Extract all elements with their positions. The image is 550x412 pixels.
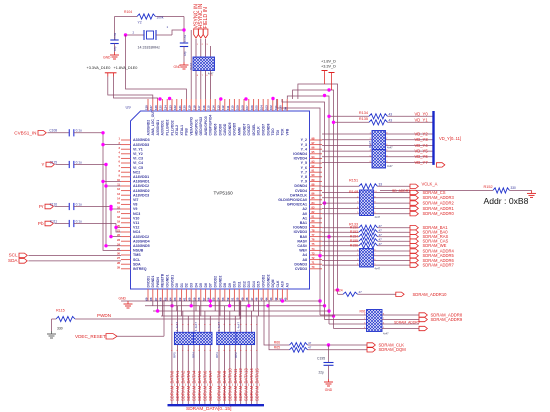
svg-text:A33GND2: A33GND2 <box>146 120 150 136</box>
svg-text:SCL: SCL <box>9 253 18 258</box>
svg-text:22p: 22p <box>319 371 325 375</box>
wire SCL to IC <box>28 254 121 256</box>
svg-text:R151: R151 <box>349 179 358 183</box>
svg-text:SDRAM_DATA9: SDRAM_DATA9 <box>222 370 227 401</box>
connector flag SDRAM_ADDR9 <box>419 317 427 321</box>
svg-text:PLLVDD2: PLLVDD2 <box>170 120 174 135</box>
ground GND under IC <box>127 301 129 304</box>
svg-text:123: 123 <box>168 105 172 110</box>
svg-text:SDRAM_DATA4: SDRAM_DATA4 <box>192 370 197 401</box>
svg-text:SDA: SDA <box>8 258 18 263</box>
svg-text:VD_Y1: VD_Y1 <box>415 117 429 122</box>
svg-text:D10: D10 <box>233 281 237 287</box>
svg-text:113: 113 <box>216 105 220 110</box>
svg-text:U9: U9 <box>126 105 132 110</box>
svg-text:CVBP/GPIO4: CVBP/GPIO4 <box>209 115 213 136</box>
connector flag HSYNC IN <box>199 29 204 38</box>
svg-text:R149: R149 <box>349 190 358 194</box>
wire flags to resistor network R164 <box>195 39 197 57</box>
svg-text:CVDD7: CVDD7 <box>247 124 251 136</box>
svg-text:AVID/GPIO3: AVID/GPIO3 <box>204 116 208 135</box>
svg-text:A18VDC3: A18VDC3 <box>133 193 149 197</box>
svg-text:I2CSEL: I2CSEL <box>252 124 256 136</box>
node crystal right junction <box>182 28 185 31</box>
svg-text:SDRAM_DATA8: SDRAM_DATA8 <box>217 370 222 401</box>
junction dots on right bundle <box>323 94 326 97</box>
svg-text:C169: C169 <box>113 32 117 40</box>
svg-text:109: 109 <box>236 105 240 110</box>
svg-text:V12: V12 <box>133 226 139 230</box>
wires R91 to flags <box>382 314 419 316</box>
junction dots top pins <box>158 97 161 100</box>
svg-text:SDRAM_DATA14: SDRAM_DATA14 <box>249 368 254 401</box>
svg-text:D7: D7 <box>209 283 213 287</box>
connector flag SDRAM_CLK <box>367 343 375 347</box>
svg-text:D11: D11 <box>238 281 242 287</box>
svg-text:18p: 18p <box>113 46 117 51</box>
resistor R66 <box>264 300 290 345</box>
svg-text:101: 101 <box>274 105 278 110</box>
svg-text:TVP5160: TVP5160 <box>214 191 234 196</box>
svg-text:SDRAM_DATA5: SDRAM_DATA5 <box>197 370 202 401</box>
svg-text:TMS: TMS <box>133 253 141 257</box>
connector flag FIELD IN <box>203 29 208 38</box>
svg-text:C116: C116 <box>50 202 58 206</box>
wires SDRAM data lines <box>171 301 173 405</box>
svg-text:WE#: WE# <box>299 249 307 253</box>
svg-text:106: 106 <box>250 105 254 110</box>
svg-text:NC3: NC3 <box>133 212 140 216</box>
IC U9 TVP5160 video decoder body <box>131 111 310 289</box>
svg-text:121: 121 <box>178 105 182 110</box>
resistor R134 <box>369 114 388 119</box>
svg-text:GLD/GPIO/I2CA0: GLD/GPIO/I2CA0 <box>278 198 307 202</box>
svg-text:A2: A2 <box>302 207 307 211</box>
svg-text:PLLGND2: PLLGND2 <box>166 120 170 136</box>
svg-text:D2: D2 <box>185 283 189 287</box>
svg-text:SDRAM_DATA3: SDRAM_DATA3 <box>186 370 191 401</box>
svg-text:1 4x47: 1 4x47 <box>175 322 179 331</box>
svg-text:XTAL2: XTAL2 <box>175 125 179 136</box>
svg-text:R147: R147 <box>368 140 372 148</box>
svg-text:FIELD IN: FIELD IN <box>203 7 209 29</box>
svg-text:D3: D3 <box>190 283 194 287</box>
wire XTAL2 from crystal right node <box>190 30 192 99</box>
svg-text:Pb: Pb <box>38 221 44 226</box>
ground at R152 <box>531 190 533 193</box>
svg-text:VD_Y3: VD_Y3 <box>415 137 429 142</box>
svg-text:SCLK: SCLK <box>257 126 261 136</box>
power symbol +1.8VA <box>111 72 117 74</box>
svg-text:GND: GND <box>103 56 111 60</box>
svg-text:47: 47 <box>308 341 312 345</box>
svg-text:VD_Y7: VD_Y7 <box>415 160 429 165</box>
svg-text:VI_Y2: VI_Y2 <box>133 152 143 156</box>
power symbol +1.8V_D <box>322 70 328 72</box>
IC right pins with numbers and names <box>310 139 323 141</box>
svg-text:A3: A3 <box>286 283 290 287</box>
svg-text:GND: GND <box>118 297 126 301</box>
svg-text:118: 118 <box>192 105 196 110</box>
svg-text:126: 126 <box>154 105 158 110</box>
svg-text:Pr: Pr <box>39 204 44 209</box>
IC bottom pins with numbers and names <box>147 289 149 300</box>
svg-text:PWDN: PWDN <box>97 313 111 318</box>
svg-text:R115: R115 <box>56 309 65 313</box>
svg-text:R154: R154 <box>350 235 358 239</box>
svg-text:C195: C195 <box>317 357 325 361</box>
svg-text:XTAL1: XTAL1 <box>180 125 184 136</box>
wire R164 to IC top pins <box>195 71 197 100</box>
svg-text:D14: D14 <box>252 281 256 287</box>
svg-text:VD_Y5: VD_Y5 <box>415 149 429 154</box>
resistor network R148 lower <box>372 150 386 169</box>
svg-text:117: 117 <box>197 105 201 110</box>
svg-text:100: 100 <box>279 105 283 110</box>
svg-text:1 4x47: 1 4x47 <box>217 322 221 331</box>
svg-text:114: 114 <box>212 105 216 110</box>
svg-text:R152: R152 <box>484 185 493 189</box>
svg-text:102: 102 <box>269 105 273 110</box>
svg-text:127: 127 <box>149 105 153 110</box>
svg-text:SDRAM_ADDR10: SDRAM_ADDR10 <box>413 292 448 297</box>
svg-text:A33GND3: A33GND3 <box>133 138 150 142</box>
svg-text:IOVDD5: IOVDD5 <box>233 123 237 136</box>
svg-text:VI_C5: VI_C5 <box>133 166 143 170</box>
svg-text:47: 47 <box>359 290 363 294</box>
svg-text:V10: V10 <box>133 216 139 220</box>
svg-text:BA1: BA1 <box>300 221 307 225</box>
svg-text:47: 47 <box>379 233 383 237</box>
svg-text:Y_8: Y_8 <box>301 175 307 179</box>
svg-text:CAVDD: CAVDD <box>223 123 227 135</box>
svg-text:BA0: BA0 <box>300 235 307 239</box>
wires to resistor network R147 <box>322 133 372 135</box>
svg-text:DGND3: DGND3 <box>294 262 307 266</box>
crystal Y1 14.31818MHz <box>126 34 145 36</box>
svg-text:DATACLK: DATACLK <box>290 193 307 197</box>
svg-text:RP3: RP3 <box>215 352 219 358</box>
svg-text:SDRAM_ADDR0: SDRAM_ADDR0 <box>423 211 455 216</box>
svg-text:SDRAM_DATA6: SDRAM_DATA6 <box>202 370 207 401</box>
svg-text:1 4x47: 1 4x47 <box>194 322 198 331</box>
junction dots left bundle <box>101 143 104 146</box>
wires to resistor network R149 <box>322 192 360 194</box>
svg-text:SDRAM_CS: SDRAM_CS <box>423 190 446 195</box>
svg-text:DGND1: DGND1 <box>151 276 155 288</box>
svg-text:119: 119 <box>188 105 192 110</box>
svg-text:A33VDC2: A33VDC2 <box>133 235 149 239</box>
net SD_ADDR7 strap wire <box>380 189 493 191</box>
svg-text:IOGND4: IOGND4 <box>293 152 307 156</box>
svg-text:SDRAM_DATA1: SDRAM_DATA1 <box>175 370 180 401</box>
svg-text:A4: A4 <box>302 253 307 257</box>
svg-text:0.1u: 0.1u <box>76 219 82 223</box>
wire bundle Pr net <box>111 207 121 237</box>
svg-text:PWDN: PWDN <box>156 277 160 288</box>
svg-text:VD_Y2: VD_Y2 <box>415 131 429 136</box>
svg-text:V9: V9 <box>133 207 137 211</box>
wire bundle to R134 <box>329 115 369 117</box>
svg-text:D9: D9 <box>228 283 232 287</box>
resistor R152 <box>493 188 510 193</box>
svg-text:SDRAM_DATA15: SDRAM_DATA15 <box>255 368 260 401</box>
resistor network R149 <box>360 190 374 216</box>
svg-text:A10: A10 <box>281 281 285 287</box>
svg-text:VEXA/GPIO: VEXA/GPIO <box>190 116 194 135</box>
svg-text:47: 47 <box>379 242 383 246</box>
svg-text:DVDD6: DVDD6 <box>218 124 222 136</box>
svg-text:108: 108 <box>240 105 244 110</box>
wire XTAL1 from crystal left node <box>126 35 187 99</box>
svg-text:RAS#: RAS# <box>297 239 307 243</box>
svg-text:Addr : 0xB8: Addr : 0xB8 <box>484 196 529 206</box>
svg-text:SDRAM_DATA7: SDRAM_DATA7 <box>208 370 213 401</box>
svg-text:DGND6: DGND6 <box>214 124 218 136</box>
power symbol +3.3V_D <box>329 72 335 74</box>
connector flag spare <box>419 326 427 330</box>
svg-text:D12: D12 <box>242 281 246 287</box>
svg-text:D0: D0 <box>175 283 179 287</box>
svg-text:124: 124 <box>164 105 168 110</box>
svg-text:116: 116 <box>202 105 206 110</box>
svg-text:A33GND4: A33GND4 <box>133 239 150 243</box>
resistor R104 <box>137 14 156 19</box>
svg-text:VI_Y1: VI_Y1 <box>133 147 143 151</box>
wire bundle CVBS net <box>103 133 121 251</box>
svg-text:TCK: TCK <box>281 128 285 136</box>
svg-text:DGND8: DGND8 <box>266 124 270 136</box>
svg-text:45: 45 <box>260 297 264 301</box>
svg-text:VD_Y4: VD_Y4 <box>415 143 429 148</box>
svg-text:0.1u: 0.1u <box>76 202 82 206</box>
svg-text:C111: C111 <box>50 219 57 223</box>
svg-text:14.31818MHz: 14.31818MHz <box>138 46 161 50</box>
svg-text:AMM: AMM <box>238 127 242 135</box>
svg-text:103: 103 <box>264 105 268 110</box>
svg-text:Y_6: Y_6 <box>301 166 307 170</box>
resistor R150 <box>322 227 359 229</box>
svg-text:A33VDD3: A33VDD3 <box>133 143 149 147</box>
svg-text:18p: 18p <box>183 51 187 56</box>
svg-text:IOVDD2: IOVDD2 <box>262 275 266 288</box>
svg-text:SCL: SCL <box>133 258 141 262</box>
svg-text:DVDD7: DVDD7 <box>262 124 266 136</box>
svg-text:R91: R91 <box>360 310 366 314</box>
svg-text:47: 47 <box>379 224 383 228</box>
svg-text:IOGND5: IOGND5 <box>228 122 232 135</box>
svg-text:SDRAM_DQM: SDRAM_DQM <box>379 347 407 352</box>
svg-text:A33GND1: A33GND1 <box>156 120 160 136</box>
svg-text:4x47: 4x47 <box>383 332 389 336</box>
connector flag SDRAM_DQM <box>367 348 375 352</box>
resistor R154 <box>322 236 359 238</box>
svg-text:SDRAM_DATA2: SDRAM_DATA2 <box>180 370 185 401</box>
svg-text:VI_C4: VI_C4 <box>133 161 143 165</box>
resistor network R133 <box>360 249 374 268</box>
svg-text:V8: V8 <box>133 203 137 207</box>
svg-text:A18VDC2: A18VDC2 <box>133 184 149 188</box>
svg-text:44: 44 <box>264 297 268 301</box>
connector flag SDRAM_ADDR10 <box>396 292 404 296</box>
IC top pins with numbers and names <box>147 99 149 111</box>
resistor R135 <box>369 120 388 125</box>
svg-text:GED/GPIO2: GED/GPIO2 <box>199 117 203 136</box>
svg-text:DGND4: DGND4 <box>294 184 307 188</box>
svg-text:104: 104 <box>260 105 264 110</box>
connector flags SDRAM control and address <box>410 226 418 230</box>
svg-text:CLK: CLK <box>276 280 280 288</box>
svg-text:TDI: TDI <box>276 130 280 136</box>
svg-text:33: 33 <box>379 182 383 186</box>
svg-text:Y_9: Y_9 <box>301 180 307 184</box>
svg-text:A18GND2: A18GND2 <box>133 189 150 193</box>
svg-text:100k: 100k <box>157 16 164 20</box>
svg-text:SDRAM_DATA11: SDRAM_DATA11 <box>233 368 238 401</box>
svg-text:SDRAM_DATA12: SDRAM_DATA12 <box>238 368 243 401</box>
wire SDA to IC <box>28 260 121 262</box>
svg-text:43: 43 <box>389 112 393 116</box>
svg-text:VDEC_RESET: VDEC_RESET <box>75 334 106 339</box>
bus SDRAM_DATA <box>168 404 265 406</box>
ground at R115 <box>51 331 53 334</box>
bus exit flag <box>437 163 445 167</box>
svg-text:SDRAM_DATA0: SDRAM_DATA0 <box>169 370 174 401</box>
resistor networks RP5 RP4 RP3 RP2 <box>174 332 193 344</box>
svg-text:Y_4: Y_4 <box>301 147 307 151</box>
connector flag VCLK_A <box>410 184 418 188</box>
svg-text:47: 47 <box>308 346 312 350</box>
svg-text:A18GND1: A18GND1 <box>133 180 150 184</box>
svg-text:Y_3: Y_3 <box>301 143 307 147</box>
ground GND right of crystal <box>183 62 185 65</box>
svg-text:+1.8V_D: +1.8V_D <box>321 60 336 64</box>
svg-text:VD_Y0: VD_Y0 <box>415 111 429 116</box>
svg-text:D13: D13 <box>247 281 251 287</box>
resistor network R164 <box>193 57 215 71</box>
node crystal left junction <box>124 33 127 36</box>
svg-text:IOGND2: IOGND2 <box>266 274 270 287</box>
connector flags SDRAM_CS SDRAM_ADDR3-0 <box>410 190 418 194</box>
connector flag VSYNC IN <box>194 29 199 38</box>
svg-text:SDRAM_ADDR9: SDRAM_ADDR9 <box>431 317 463 322</box>
wire bundle Pb net <box>116 224 121 233</box>
svg-text:ANA_LOC_OUT: ANA_LOC_OUT <box>151 109 155 135</box>
svg-text:R156: R156 <box>350 244 358 248</box>
svg-text:R150: R150 <box>350 226 358 230</box>
svg-text:120: 120 <box>183 105 187 110</box>
svg-text:RESETB: RESETB <box>161 273 165 287</box>
power symbol +3.3VA <box>105 72 111 74</box>
svg-text:115: 115 <box>207 105 211 110</box>
svg-text:CVDD3: CVDD3 <box>295 267 307 271</box>
svg-text:NSUB: NSUB <box>133 249 144 253</box>
svg-text:SDRAM_ADDR2: SDRAM_ADDR2 <box>423 201 455 206</box>
svg-text:D4: D4 <box>194 283 198 287</box>
svg-text:D5: D5 <box>199 283 203 287</box>
wire +1.8VA rail to pin <box>114 77 158 100</box>
svg-text:SDRAM_DATA[0..15]: SDRAM_DATA[0..15] <box>186 406 231 412</box>
svg-text:NC4: NC4 <box>133 230 140 234</box>
svg-text:GND: GND <box>325 388 333 392</box>
svg-text:112: 112 <box>221 105 225 110</box>
svg-text:330: 330 <box>57 327 63 331</box>
svg-text:SDA: SDA <box>133 262 141 266</box>
svg-text:R135: R135 <box>359 117 368 121</box>
resistor R156 <box>322 245 359 247</box>
svg-text:42: 42 <box>274 297 278 301</box>
resistor network R91 <box>367 310 383 332</box>
bus VD_Y vertical <box>432 111 434 165</box>
svg-text:4x47: 4x47 <box>387 146 393 150</box>
junction dot C195 tap <box>327 343 330 346</box>
svg-text:43: 43 <box>389 118 393 122</box>
svg-text:RP4: RP4 <box>192 352 196 358</box>
svg-text:VI_C3: VI_C3 <box>133 157 143 161</box>
svg-text:NC2: NC2 <box>133 170 140 174</box>
svg-text:DQM: DQM <box>271 279 275 287</box>
svg-text:A33GND5: A33GND5 <box>133 244 150 248</box>
svg-text:128: 128 <box>144 105 148 110</box>
wire oscillator top loop <box>115 16 138 18</box>
net PWDN wire <box>75 318 240 320</box>
wires IC bottom pins to rails <box>147 300 149 301</box>
svg-text:43: 43 <box>269 297 273 301</box>
svg-text:C115: C115 <box>50 160 58 164</box>
svg-text:SDRAM_ADDR7: SDRAM_ADDR7 <box>423 263 455 268</box>
svg-text:D15: D15 <box>257 281 261 287</box>
svg-text:RP2: RP2 <box>234 352 238 358</box>
wire bottom power rails <box>121 300 320 302</box>
IC left pins with numbers and names <box>121 139 131 141</box>
svg-text:D8: D8 <box>223 283 227 287</box>
svg-text:0.1u: 0.1u <box>76 160 82 164</box>
svg-text:VFB: VFB <box>286 128 290 135</box>
svg-text:VI7: VI7 <box>133 198 138 202</box>
svg-text:4x47: 4x47 <box>375 215 381 219</box>
junction dot data bus <box>209 299 212 302</box>
svg-text:DGND2: DGND2 <box>218 276 222 288</box>
svg-text:125: 125 <box>159 105 163 110</box>
svg-text:40: 40 <box>284 297 288 301</box>
svg-text:4x47: 4x47 <box>375 267 381 271</box>
svg-text:IOVDD1: IOVDD1 <box>170 275 174 288</box>
svg-text:IOGND3: IOGND3 <box>293 226 307 230</box>
svg-text:D6: D6 <box>204 283 208 287</box>
svg-text:Y: Y <box>41 162 44 167</box>
resistor R65 <box>269 300 290 350</box>
svg-text:122: 122 <box>173 105 177 110</box>
svg-text:VD_Y6: VD_Y6 <box>415 154 429 159</box>
svg-text:VCLK_A: VCLK_A <box>422 182 438 187</box>
resistor R115 <box>56 316 75 321</box>
ground GND left of crystal <box>114 52 116 55</box>
wires bundle to resistor network R91 <box>320 314 367 316</box>
capacitor C163 <box>180 42 188 44</box>
svg-text:+3.3VA_D1E0: +3.3VA_D1E0 <box>87 66 111 70</box>
svg-text:C163: C163 <box>183 34 187 42</box>
svg-text:0.1u: 0.1u <box>76 129 82 133</box>
svg-text:A33VDD1: A33VDD1 <box>161 120 165 135</box>
svg-text:IOGND1: IOGND1 <box>166 274 170 287</box>
svg-text:+3.3V_D: +3.3V_D <box>321 64 336 68</box>
svg-text:D1: D1 <box>180 283 184 287</box>
svg-text:A8: A8 <box>302 258 307 262</box>
svg-text:105: 105 <box>255 105 259 110</box>
svg-text:4x47: 4x47 <box>387 164 393 168</box>
ground GND at C195 <box>328 379 330 382</box>
svg-text:47: 47 <box>379 237 383 241</box>
